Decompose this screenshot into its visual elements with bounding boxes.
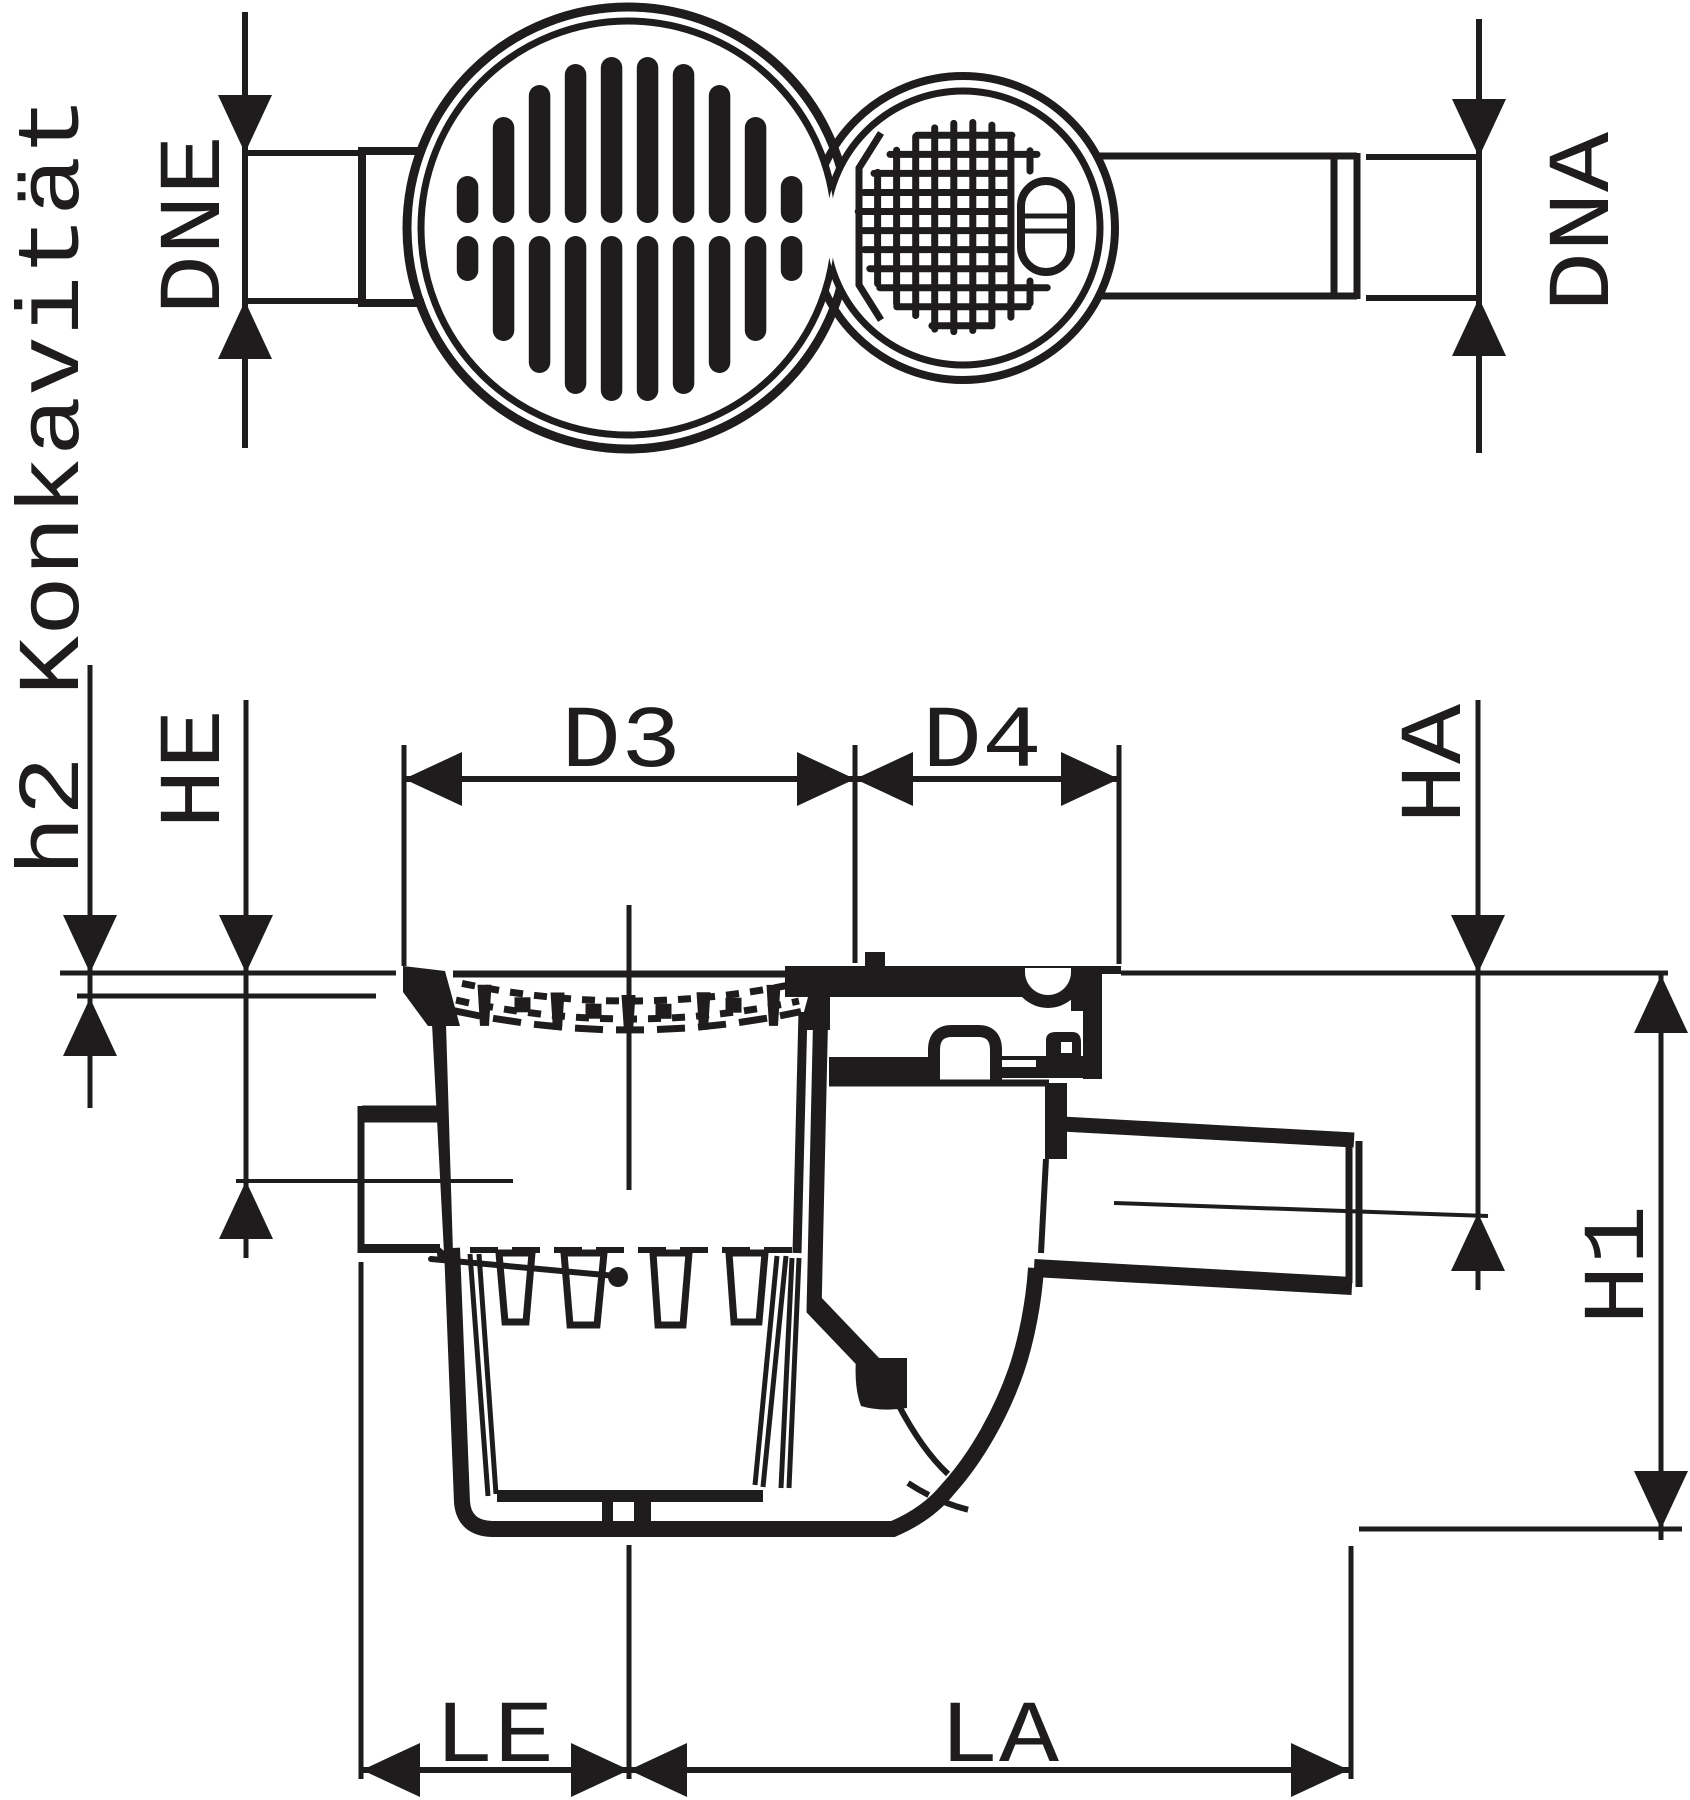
h2 dimension line [88,665,93,1108]
clamp bolt [1046,1032,1081,1056]
bowl inner wall right outer [789,1258,799,1488]
funnel wall left [432,1024,453,1253]
svg-text:HE: HE [147,709,246,829]
inlet stub top wall [362,1106,441,1123]
DNA tick top [1366,154,1479,160]
strainer basket rim dashed [470,1247,802,1253]
bowl outer wall [452,1248,1036,1529]
vertical centreline lower [627,1545,632,1779]
HE arrow bottom [219,1181,273,1239]
LA extension line right [1349,1546,1354,1779]
outlet pipe end vertical [1356,1141,1363,1287]
trap partition diagonal strut [814,1305,877,1371]
grate concavity level line [77,994,376,999]
trap cover outer circle [811,76,1115,380]
chamber wall lower line [1041,1159,1046,1253]
HA arrow bottom [1451,1213,1505,1271]
svg-text:D3: D3 [561,694,681,793]
trap cover flat edge [859,133,881,320]
DNE tick top [245,150,362,156]
LE LA dimension line [362,1767,1349,1773]
h2 arrow top [63,915,117,973]
inlet stub bottom step [436,1244,452,1262]
D4 dimension line [855,776,1119,782]
grate inner rim circle [421,21,835,435]
outlet pipe top wall section [1062,1124,1354,1140]
svg-text:HA: HA [1388,703,1487,824]
grate square dashes [515,997,531,1012]
HA arrow top [1451,915,1505,973]
inlet centreline [236,1179,513,1183]
funnel wall right [797,1012,803,1253]
DNA arrow bottom [1452,298,1506,356]
svg-text:LE: LE [434,1689,554,1788]
DNE arrow top [218,95,272,153]
DNA tick bottom [1366,295,1479,301]
outlet pipe socket vertical [1346,1136,1353,1283]
DNA dimension line [1476,19,1482,453]
wire mesh pattern [874,172,881,283]
grate rib bars [478,985,492,1026]
clamp profile [829,1057,934,1083]
HE arrow top [219,915,273,973]
basket wall left inner [479,1254,496,1494]
floor level line left [60,971,396,976]
basket slots [499,1253,532,1322]
grate dashed arc 3 [452,1010,480,1016]
grate top line [453,971,800,978]
inlet stub bottom wall [359,1244,440,1253]
floor level line right [1121,971,1668,976]
D3 arrow left [404,752,462,806]
clamp ring lifting notch [1012,966,1084,1008]
LA arrow left [629,1743,687,1797]
funnel rim flange right [799,997,830,1030]
drain bottom reference line [1359,1527,1682,1532]
H1 arrow bottom [1634,1471,1688,1529]
grate outer rim circle [407,7,849,449]
H1 dimension line [1659,975,1664,1540]
svg-text:D4: D4 [922,694,1042,793]
DNE arrow bottom [218,301,272,359]
D4 extension line right [1117,745,1122,964]
chamber top line [829,1080,1049,1087]
clamp ring top band [785,966,1102,997]
basket wall right outer [763,1256,786,1487]
svg-text:h2 Konkavität: h2 Konkavität [6,96,105,876]
D4 arrow right [1061,752,1119,806]
basket wall left outer [470,1254,488,1496]
elbow inner wall [898,1404,948,1474]
inlet pipe stub, plan view [362,151,424,303]
outlet pipe, plan view [1097,153,1357,160]
trap cover inner circle [826,91,1100,365]
inlet stub left end [358,1106,365,1253]
trap capsule detail [1021,181,1071,272]
D3/D4 shared extension line [853,745,858,963]
svg-text:DNE: DNE [147,135,246,315]
chamber right wall [1045,1083,1067,1159]
LE extension line left [359,1262,364,1779]
basket feet [602,1502,613,1522]
basket wall right inner [755,1256,777,1485]
D3 extension line left [402,745,407,966]
DNE dimension line [242,12,248,448]
DNE tick bottom [245,298,362,304]
bail handle ball [608,1267,628,1287]
outlet pipe bottom wall section [1034,1268,1352,1286]
H1 arrow top [1634,975,1688,1033]
HE dimension line [244,700,249,1258]
bowl inner wall right inner [781,1258,792,1488]
trap partition wall [814,1000,821,1312]
funnel rim flange left [403,966,460,1026]
outlet pipe end line [1354,153,1361,299]
grate dashed arc 1 [462,983,475,986]
DNA arrow top [1452,99,1506,157]
LA arrow right [1291,1743,1349,1797]
h2 arrow bottom [63,998,117,1056]
grate dashed arc 2 [456,1000,469,1003]
basket bail handle [431,1259,616,1276]
D3 dimension line [404,776,855,782]
LE arrow right [571,1743,629,1797]
elbow inner dashed [908,1483,974,1511]
clamp profile bump [934,1031,996,1083]
outlet centreline [1114,1203,1488,1216]
basket bottom line [497,1490,763,1502]
D4 arrow left [855,752,913,806]
LE arrow left [362,1743,420,1797]
clamp right bar [1071,966,1102,1011]
D3 arrow right [797,752,855,806]
outlet pipe socket line [1331,157,1338,295]
grate slots pattern [601,57,623,223]
vertical centreline upper [627,905,632,1190]
svg-text:LA: LA [939,1689,1060,1788]
HA dimension line [1476,700,1481,1290]
svg-text:H1: H1 [1571,1205,1670,1325]
svg-text:DNA: DNA [1536,131,1635,312]
trap strut foot [856,1358,907,1410]
